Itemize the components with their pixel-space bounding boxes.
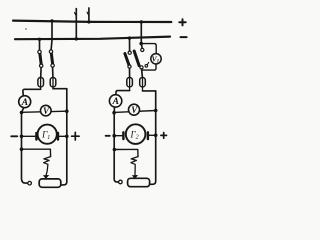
voltmeter V (unit 1) — [41, 105, 52, 116]
wire field row (unit 2) — [114, 149, 138, 156]
label + (right end of top bus) — [179, 19, 185, 25]
node feeder stub 1 on - bus — [75, 37, 78, 40]
wire G1 left rail — [22, 112, 28, 183]
wire G1 right branch from + bus (crosses - bus) — [50, 21, 53, 50]
switch S2b bottom contact — [140, 66, 143, 69]
switch S2a blade (open) — [125, 54, 129, 65]
voltmeter V (unit 2) — [129, 104, 140, 115]
node G2 right branch on + bus — [140, 20, 143, 23]
fuse F2a — [127, 78, 133, 87]
speck — [25, 28, 26, 29]
wire G1 right rail — [61, 89, 67, 185]
wire network feeder stub 1 (to - bus) — [75, 9, 77, 39]
label + (generator G2 positive terminal) — [161, 133, 167, 139]
wire switch S1b to fuse F1b — [52, 67, 54, 77]
brush G2 left — [122, 132, 124, 139]
terminal circle at bottom of G2 left rail — [119, 180, 123, 184]
svg-text:V: V — [131, 105, 138, 115]
fuse F1b — [50, 78, 56, 87]
switch V1 blade — [147, 62, 149, 64]
wire network feeder stub 2 (to + bus) — [88, 8, 90, 22]
ammeter A1 — [19, 96, 31, 108]
switch S2a top contact — [128, 51, 131, 54]
switch S1a bottom contact — [40, 64, 43, 67]
wire G1 left branch from - bus — [39, 39, 41, 50]
fuse F2b — [140, 78, 146, 87]
switch S1b top contact — [49, 50, 52, 53]
generator G2 armature circle — [126, 124, 146, 144]
switch S1b bottom contact — [51, 64, 54, 67]
arrowhead onto rheostat R2 — [132, 175, 138, 179]
brush G2 right — [147, 132, 149, 139]
wire left rail to G1 brush — [22, 135, 37, 137]
switch V1 contact circle — [145, 65, 148, 68]
wire G2 left rail — [114, 113, 118, 183]
wire fuse F1b to right rail — [53, 88, 67, 90]
wire G1 brush to right rail — [58, 135, 67, 137]
node below A1 — [20, 111, 24, 115]
voltmeter V1 — [151, 54, 161, 64]
switch S2b blade (open) — [134, 51, 139, 66]
label - (generator G1 negative terminal) — [11, 135, 17, 137]
wire left rail to G2 brush — [114, 135, 123, 137]
wire G2 brush to right rail — [148, 134, 156, 136]
switch S2b top contact — [141, 48, 144, 51]
switch S1b blade (closed) — [51, 52, 53, 64]
fuse F1a — [38, 78, 44, 87]
label - (generator G2 negative terminal) — [106, 135, 110, 137]
svg-text:A: A — [112, 97, 119, 107]
wire V1 branch bottom — [142, 64, 156, 70]
wire fuse F1a to ammeter A1 — [23, 89, 41, 96]
wire fuse F2a to ammeter A2 — [116, 91, 130, 95]
arrowhead onto rheostat R1 — [43, 175, 49, 179]
wire voltmeter V row (unit 2) — [114, 111, 156, 113]
wire V1 branch top — [141, 44, 156, 54]
wire G2 left branch from - bus — [129, 38, 131, 51]
label + (generator G1 positive terminal) — [72, 132, 80, 140]
node right rail G1 row — [65, 135, 69, 139]
node left rail G2 row — [112, 134, 116, 138]
wire switch S1a to fuse F1a — [40, 68, 42, 78]
wire G2 right rail — [150, 91, 156, 184]
wire switch S2a to fuse F2a — [129, 68, 131, 77]
node V row right (unit 2) — [154, 109, 158, 113]
field winding zigzag (unit 2) — [131, 157, 138, 176]
node left rail G1 row — [20, 135, 24, 139]
wire voltmeter V row (unit 1) — [22, 111, 67, 112]
node G1 right branch on + bus — [50, 19, 53, 22]
node right rail G2 row — [154, 134, 158, 138]
switch S2a bottom contact — [128, 65, 131, 68]
node field tap (unit 2) — [113, 148, 117, 152]
generator G1 armature circle — [38, 125, 57, 144]
wire fuse F2b to right rail — [143, 90, 156, 92]
bus - (bottom busbar) — [15, 37, 170, 40]
rheostat R2 body — [128, 178, 150, 186]
wire ammeter A1 to left rail — [22, 108, 24, 113]
switch S1a top contact — [38, 50, 41, 53]
wire G2 right branch from + bus (crosses - bus) — [140, 22, 143, 48]
svg-text:V: V — [43, 106, 50, 116]
ammeter A2 — [109, 95, 121, 107]
svg-text:A: A — [21, 98, 28, 108]
wire ammeter A2 to left rail — [113, 107, 115, 113]
node field tap (unit 1) — [20, 147, 24, 151]
node feeder stub 2 on + bus — [87, 20, 90, 23]
node G1 left branch on - bus — [38, 38, 41, 41]
label - (right end of bottom bus) — [181, 36, 187, 38]
arrowhead on feeder stub 1 — [75, 13, 77, 16]
brush G1 left — [35, 133, 37, 140]
wire switch S2b to fuse F2b — [141, 69, 144, 78]
terminal circle at bottom of G1 left rail — [28, 181, 32, 185]
node G2 left branch on - bus — [128, 36, 131, 39]
node V row right (unit 1) — [65, 109, 69, 113]
field winding zigzag (unit 1) — [44, 157, 51, 176]
brush G1 right — [57, 133, 59, 140]
rheostat R1 body — [39, 179, 61, 187]
arrowhead on feeder stub 2 — [87, 12, 89, 15]
switch S1a blade (closed) — [40, 53, 42, 65]
node V1 tap — [139, 42, 143, 46]
node below A2 — [112, 111, 116, 115]
bus + (top busbar) — [13, 21, 171, 22]
wire field row (unit 1) — [22, 149, 51, 156]
